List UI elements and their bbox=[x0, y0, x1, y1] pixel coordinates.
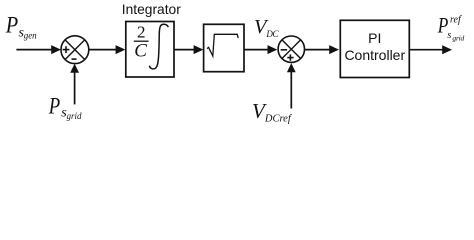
svg-text:2: 2 bbox=[137, 23, 146, 42]
svg-text:s: s bbox=[447, 30, 451, 41]
svg-text:ref: ref bbox=[450, 15, 462, 26]
svg-text:P: P bbox=[5, 12, 18, 37]
svg-text:C: C bbox=[134, 40, 147, 61]
svg-text:P: P bbox=[48, 94, 60, 119]
svg-text:DC: DC bbox=[265, 29, 279, 39]
svg-text:PI: PI bbox=[368, 30, 381, 46]
svg-text:gen: gen bbox=[24, 30, 37, 40]
svg-text:Integrator: Integrator bbox=[122, 2, 181, 17]
svg-text:DCref: DCref bbox=[264, 114, 293, 125]
svg-text:Controller: Controller bbox=[344, 47, 405, 63]
svg-text:grid: grid bbox=[67, 111, 83, 121]
svg-text:grid: grid bbox=[452, 33, 464, 42]
